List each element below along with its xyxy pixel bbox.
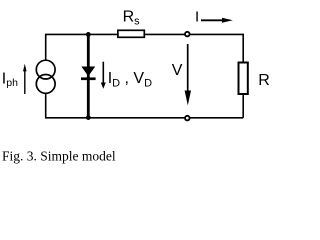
resistor Rs <box>118 30 144 37</box>
junction top <box>86 32 91 37</box>
diode D (triangle) <box>81 67 95 77</box>
svg-text:R: R <box>258 72 270 89</box>
wire Rs to node <box>145 33 188 35</box>
diode branch thick wire <box>87 34 90 117</box>
diode D (cathode bar) <box>81 77 96 80</box>
arrow I (right) <box>201 18 233 23</box>
wire R bottom to bottom-right corner <box>242 94 244 118</box>
arrow Iph (up) <box>23 64 27 94</box>
svg-text:Fig. 3. Simple model: Fig. 3. Simple model <box>2 148 116 163</box>
svg-text:ID , VD: ID , VD <box>108 70 152 90</box>
current source Iph (two overlapping circles) <box>36 60 55 93</box>
svg-text:Iph: Iph <box>2 71 18 90</box>
arrow ID (down) <box>101 62 106 89</box>
arrow V (down) <box>185 44 191 106</box>
wire left vertical (current source bottom to bottom rail) <box>45 94 47 118</box>
svg-text:Rs: Rs <box>123 9 141 28</box>
node bottom (output terminal) <box>185 116 190 121</box>
junction bottom <box>86 115 91 120</box>
wire top-left (current source top to Rs) <box>46 34 118 59</box>
wire node to top-right corner and down to R <box>188 34 243 62</box>
node top (output terminal) <box>185 32 190 37</box>
wire bottom rail <box>45 117 243 119</box>
svg-text:I: I <box>195 8 199 25</box>
svg-text:V: V <box>172 62 183 79</box>
resistor R <box>239 63 248 95</box>
